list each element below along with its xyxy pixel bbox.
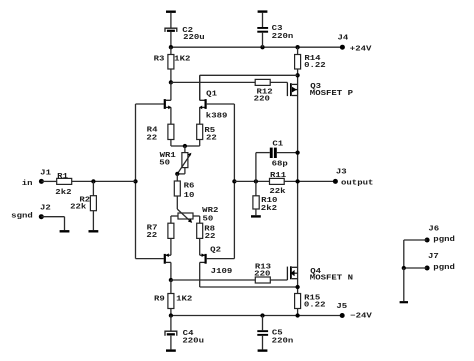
svg-text:220n: 220n — [272, 337, 294, 345]
svg-text:22: 22 — [206, 134, 217, 142]
wire — [170, 47, 172, 54]
svg-text:C5: C5 — [272, 329, 283, 337]
svg-text:10: 10 — [184, 192, 195, 200]
wire — [176, 174, 178, 181]
resistor R9 — [170, 280, 172, 294]
svg-text:R1: R1 — [57, 173, 69, 181]
svg-text:22: 22 — [146, 232, 157, 240]
resistor R14 — [295, 55, 301, 70]
svg-text:1K2: 1K2 — [174, 56, 190, 64]
node R10/R11/C1 — [254, 179, 258, 183]
transistor Q1 right — [205, 99, 207, 109]
svg-text:50: 50 — [159, 159, 170, 167]
node wiper WR1 — [175, 172, 179, 176]
wire — [297, 309, 299, 316]
svg-text:−24V: −24V — [350, 312, 372, 320]
wire — [255, 209, 257, 215]
svg-text:220: 220 — [254, 95, 270, 103]
wire — [270, 81, 287, 83]
svg-text:68p: 68p — [272, 160, 288, 168]
wire — [170, 336, 172, 350]
svg-text:220u: 220u — [182, 338, 204, 346]
wire — [200, 286, 298, 288]
wire — [262, 336, 264, 350]
transistor Q2 left — [164, 254, 166, 264]
wire — [92, 211, 94, 230]
capacitor C2 — [165, 28, 177, 32]
trimmer WR1 — [184, 146, 186, 153]
svg-text:22k: 22k — [269, 188, 286, 196]
resistor R13 — [255, 277, 270, 283]
svg-text:MOSFET N: MOSFET N — [310, 275, 353, 283]
svg-text:J4: J4 — [338, 34, 350, 42]
transistor Q4 — [286, 267, 288, 280]
svg-text:Q2: Q2 — [210, 246, 221, 254]
svg-text:2k2: 2k2 — [261, 205, 277, 213]
svg-text:k389: k389 — [206, 113, 228, 121]
wire — [170, 13, 172, 28]
node input — [133, 179, 137, 183]
wire — [176, 196, 178, 209]
node Q2 drain — [169, 278, 173, 282]
resistor R11 — [270, 178, 285, 184]
capacitor C5 — [262, 316, 264, 331]
svg-text:WR2: WR2 — [202, 207, 218, 215]
wire — [199, 75, 201, 100]
wire — [284, 180, 335, 182]
wire — [72, 180, 136, 182]
connector J3 — [333, 179, 338, 184]
svg-text:0.22: 0.22 — [304, 301, 326, 309]
svg-text:C3: C3 — [272, 25, 283, 33]
node C1 right — [295, 150, 299, 154]
wire — [41, 216, 64, 218]
capacitor C3 — [257, 27, 268, 29]
svg-text:J5: J5 — [336, 303, 347, 311]
svg-text:R6: R6 — [184, 182, 195, 190]
wire — [297, 47, 299, 54]
wire gate right — [233, 104, 235, 259]
svg-text:J6: J6 — [428, 226, 439, 234]
svg-text:50: 50 — [203, 215, 214, 223]
node Q4 source — [295, 285, 299, 289]
svg-text:R3: R3 — [154, 56, 165, 64]
ground — [60, 230, 70, 232]
svg-text:J2: J2 — [40, 204, 51, 212]
wire main rail — [297, 69, 299, 294]
trimmer WR2 — [178, 213, 193, 219]
svg-text:22: 22 — [146, 134, 157, 142]
ground — [166, 11, 176, 13]
resistor R2 — [92, 181, 94, 195]
wire gate left — [135, 104, 137, 259]
svg-text:output: output — [341, 180, 373, 188]
connector J5 — [340, 313, 345, 318]
ground — [166, 349, 176, 351]
resistor R1 — [57, 178, 72, 184]
ground — [258, 349, 268, 351]
svg-text:R10: R10 — [261, 197, 277, 205]
svg-text:J1: J1 — [40, 169, 52, 177]
wire — [199, 238, 201, 255]
resistor R6 — [174, 181, 180, 196]
node -24V rail — [171, 315, 342, 317]
resistor R15 — [295, 294, 301, 309]
wire — [404, 239, 427, 241]
node Q3 source — [295, 73, 299, 77]
wire — [171, 279, 255, 281]
wire — [170, 140, 172, 147]
svg-text:22k: 22k — [70, 203, 87, 211]
capacitor C4 — [170, 316, 172, 332]
wire — [200, 74, 298, 76]
node R3 bottom — [169, 80, 173, 84]
ground — [89, 230, 99, 232]
transistor Q1 left — [136, 103, 164, 105]
wire — [170, 238, 172, 255]
resistor R7 — [168, 223, 174, 238]
svg-text:2k2: 2k2 — [55, 189, 71, 197]
svg-text:pgnd: pgnd — [433, 236, 455, 244]
svg-text:+24V: +24V — [350, 46, 372, 54]
resistor R8 — [197, 223, 203, 238]
svg-text:R9: R9 — [154, 295, 165, 303]
svg-text:R11: R11 — [270, 172, 287, 180]
wire — [171, 81, 255, 83]
wire — [199, 140, 201, 147]
svg-text:0.22: 0.22 — [304, 62, 326, 70]
svg-text:MOSFET P: MOSFET P — [310, 90, 354, 98]
capacitor C1 — [255, 153, 257, 182]
svg-text:sgnd: sgnd — [11, 213, 33, 221]
svg-text:in: in — [22, 180, 33, 188]
connector J6 — [425, 238, 430, 243]
node pgnd — [402, 266, 406, 270]
resistor R10 — [255, 181, 257, 195]
transistor Q2 right — [205, 254, 207, 264]
svg-text:J109: J109 — [211, 268, 233, 276]
wire — [262, 33, 264, 48]
wire — [262, 13, 264, 27]
resistor R12 — [255, 79, 270, 85]
svg-text:220: 220 — [254, 270, 270, 278]
svg-text:R4: R4 — [147, 126, 159, 134]
svg-text:C1: C1 — [272, 140, 284, 148]
wire — [170, 309, 172, 316]
svg-text:220n: 220n — [272, 33, 294, 41]
wire — [234, 180, 269, 182]
wire — [170, 69, 172, 82]
svg-text:pgnd: pgnd — [433, 264, 455, 272]
connector J7 — [425, 266, 430, 271]
transistor Q3 — [286, 82, 288, 96]
svg-text:220u: 220u — [183, 34, 205, 42]
connector J4 — [340, 45, 345, 50]
svg-text:J3: J3 — [336, 169, 347, 177]
node R1/R2 — [91, 179, 95, 183]
wire — [41, 180, 56, 182]
wire — [403, 268, 405, 301]
wire — [404, 267, 427, 269]
node tail — [183, 144, 187, 148]
svg-text:Q1: Q1 — [206, 90, 218, 98]
resistor R3 — [168, 55, 174, 70]
resistor R5 — [197, 124, 203, 139]
node feedback — [232, 179, 236, 183]
wire — [270, 279, 287, 281]
connector J1 — [39, 179, 44, 184]
wire — [170, 32, 172, 47]
svg-text:1K2: 1K2 — [176, 295, 192, 303]
node output — [295, 179, 299, 183]
ground — [251, 215, 261, 217]
resistor R4 — [168, 124, 174, 139]
svg-text:J7: J7 — [428, 253, 439, 261]
ground — [400, 301, 408, 303]
svg-text:22: 22 — [205, 233, 216, 241]
connector J2 — [39, 214, 44, 219]
node +24V rail — [171, 46, 343, 48]
ground — [258, 10, 268, 12]
